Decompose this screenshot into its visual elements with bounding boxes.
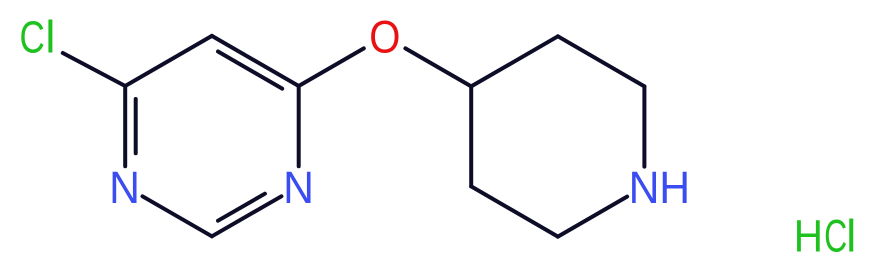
- svg-text:H: H: [794, 211, 823, 261]
- svg-text:H: H: [659, 163, 690, 213]
- svg-text:l: l: [846, 210, 856, 261]
- svg-text:N: N: [283, 163, 314, 213]
- svg-text:l: l: [45, 12, 55, 63]
- svg-text:N: N: [629, 163, 660, 213]
- svg-text:O: O: [369, 12, 400, 63]
- svg-text:C: C: [20, 11, 45, 62]
- svg-text:N: N: [109, 163, 140, 213]
- svg-text:C: C: [824, 212, 847, 262]
